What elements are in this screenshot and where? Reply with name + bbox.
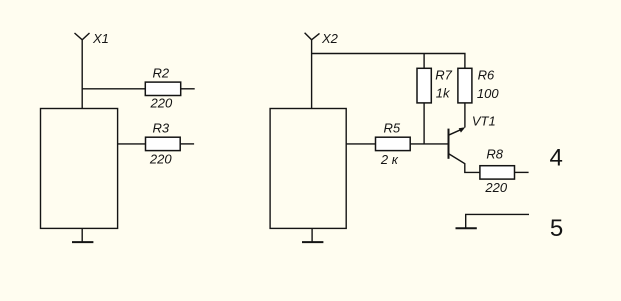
- box left: [41, 109, 118, 229]
- svg-text:1k: 1k: [436, 85, 451, 100]
- wire: [311, 40, 313, 109]
- wire: [180, 143, 194, 145]
- wire: [82, 88, 145, 90]
- transistor VT1: [449, 127, 480, 172]
- svg-text:220: 220: [150, 95, 173, 110]
- ground (node 5): [456, 227, 477, 229]
- svg-text:220: 220: [484, 180, 507, 195]
- wire: [346, 143, 375, 145]
- svg-text:X1: X1: [92, 31, 109, 46]
- resistor R3: [146, 137, 181, 150]
- svg-text:R8: R8: [486, 146, 503, 161]
- ground (right box): [302, 228, 323, 242]
- resistor R7: [417, 68, 431, 103]
- svg-text:220: 220: [149, 151, 172, 166]
- wire: [410, 143, 448, 145]
- svg-text:VT1: VT1: [472, 113, 496, 128]
- svg-text:5: 5: [550, 215, 563, 242]
- svg-text:100: 100: [477, 86, 499, 101]
- wire: [81, 40, 83, 109]
- svg-text:2 к: 2 к: [380, 152, 399, 167]
- resistor R2: [145, 82, 180, 95]
- svg-text:R7: R7: [435, 68, 452, 83]
- svg-text:4: 4: [550, 145, 563, 172]
- svg-text:R3: R3: [153, 121, 170, 136]
- box right: [270, 109, 346, 229]
- wire: [464, 103, 466, 128]
- svg-text:R5: R5: [384, 121, 401, 136]
- wire: [312, 54, 465, 69]
- antenna X2: [305, 33, 320, 40]
- wire: [423, 54, 425, 69]
- resistor R5: [376, 137, 411, 150]
- wire: [423, 103, 425, 144]
- antenna X1: [75, 33, 90, 40]
- ground (left box): [72, 228, 93, 242]
- wire: [118, 143, 146, 145]
- resistor R6: [458, 68, 472, 103]
- wire: [515, 171, 529, 173]
- svg-text:X2: X2: [321, 31, 339, 46]
- wire: [466, 214, 529, 228]
- svg-text:R2: R2: [153, 66, 170, 81]
- svg-text:R6: R6: [478, 68, 495, 83]
- wire: [181, 88, 195, 90]
- resistor R8: [480, 166, 515, 179]
